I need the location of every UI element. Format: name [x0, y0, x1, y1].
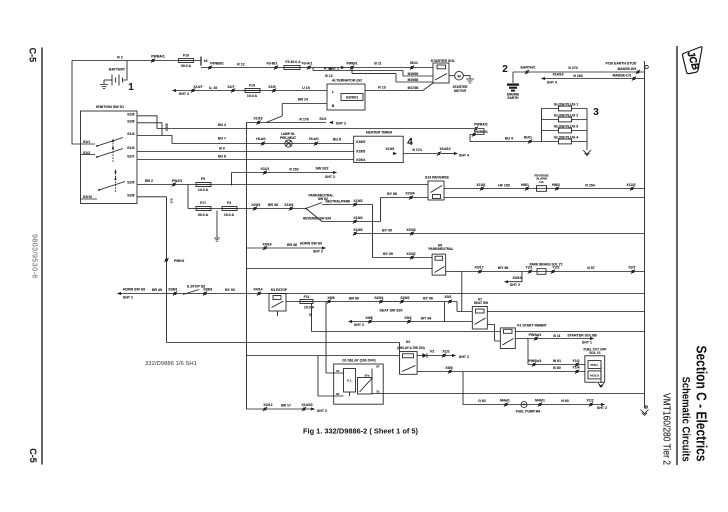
- svg-text:X20/3: X20/3: [406, 228, 415, 232]
- connector Y2/1: [528, 269, 532, 273]
- svg-text:F3 40.0 A: F3 40.0 A: [285, 60, 301, 64]
- switch seat S20 dashed: [383, 301, 399, 303]
- svg-text:BU/1: BU/1: [524, 136, 532, 140]
- svg-text:N 163: N 163: [573, 74, 582, 78]
- svg-text:GLOW PLUG 2: GLOW PLUG 2: [554, 113, 579, 117]
- svg-text:X1/2: X1/2: [586, 398, 593, 402]
- svg-text:EARTH/1: EARTH/1: [521, 66, 536, 70]
- wire S13 output N 154 row: [444, 188, 645, 190]
- svg-text:S1/4: S1/4: [127, 132, 134, 136]
- connector HLa/1: [261, 141, 265, 145]
- wire S13 coil return row: [444, 197, 645, 199]
- svg-text:PWSa/1: PWSa/1: [529, 333, 542, 337]
- wire BY 39 K5 coil row: [373, 257, 433, 259]
- svg-text:X12/2: X12/2: [626, 183, 635, 187]
- wire K2 coil row from bus: [246, 355, 400, 357]
- svg-text:9803/9530-6: 9803/9530-6: [30, 234, 37, 278]
- wire X19/3 BY 45 row: [355, 233, 645, 235]
- wire K5 contact feed row: [246, 268, 432, 270]
- svg-text:X5/5: X5/5: [445, 366, 452, 370]
- svg-text:X2/7: X2/7: [227, 85, 234, 89]
- svg-text:U, 16: U, 16: [209, 86, 217, 90]
- svg-text:M19/30: M19/30: [408, 78, 419, 82]
- wire fuel pump row: [463, 404, 601, 406]
- connector BU/1: [528, 139, 532, 143]
- svg-text:X19/9: X19/9: [356, 140, 365, 144]
- svg-text:S2/7: S2/7: [127, 154, 134, 158]
- ground starter motor: [463, 76, 474, 83]
- svg-text:Section C - Electrics: Section C - Electrics: [692, 346, 709, 462]
- wire N 174 heater output: [403, 153, 437, 155]
- svg-text:C-5: C-5: [28, 48, 38, 63]
- svg-text:PULL: PULL: [590, 363, 598, 367]
- ground fuel sol: [598, 365, 604, 388]
- svg-text:S2/6: S2/6: [127, 193, 134, 197]
- glow plug R1: [542, 108, 588, 110]
- svg-text:BR 17: BR 17: [281, 404, 291, 408]
- connector X19/1 park sw: [289, 206, 293, 210]
- svg-text:X19/1: X19/1: [284, 203, 293, 207]
- svg-text:SHT 2: SHT 2: [123, 295, 133, 299]
- svg-text:HORN SW S9: HORN SW S9: [123, 288, 145, 292]
- svg-text:R 12: R 12: [237, 63, 244, 67]
- svg-text:10.0 A: 10.0 A: [304, 305, 315, 309]
- svg-text:S20/1: S20/1: [374, 296, 383, 300]
- wire drop to fuel pump row: [462, 372, 464, 405]
- svg-text:D1 DELAY (10S OFF): D1 DELAY (10S OFF): [342, 359, 375, 363]
- D1 inner timer block: [344, 369, 356, 393]
- svg-text:E.STOP S3: E.STOP S3: [187, 285, 205, 289]
- svg-text:BU 8: BU 8: [333, 137, 341, 141]
- connector X1/9: [272, 88, 276, 92]
- svg-text:BATTERY: BATTERY: [109, 68, 126, 72]
- svg-text:SHT 1: SHT 1: [329, 67, 339, 71]
- fuel cut off solenoid Y1: [585, 356, 605, 382]
- svg-text:X4/14: X4/14: [253, 288, 262, 292]
- pcb earth stud circle: [645, 65, 648, 68]
- starter motor M1: [449, 75, 455, 77]
- ground stub below fuse row: [214, 211, 220, 242]
- wire K1 coil row: [312, 331, 501, 333]
- svg-text:M17/30: M17/30: [408, 86, 419, 90]
- connector X14/10 heater: [437, 151, 441, 155]
- svg-text:X11/1: X11/1: [261, 167, 270, 171]
- svg-text:X4/16: X4/16: [262, 242, 271, 246]
- wire B 12 branch to M19/30: [352, 68, 433, 83]
- svg-text:GLOW PLUG 1: GLOW PLUG 1: [554, 102, 579, 106]
- svg-text:SHT 2: SHT 2: [336, 122, 346, 126]
- svg-text:BU 4: BU 4: [505, 137, 513, 141]
- svg-text:R 152: R 152: [289, 168, 298, 172]
- svg-text:X19/4: X19/4: [356, 158, 365, 162]
- connector S20/1: [379, 299, 383, 303]
- svg-text:S2/10: S2/10: [83, 195, 92, 199]
- svg-text:BR 14: BR 14: [298, 98, 308, 102]
- svg-text:SEAT SW: SEAT SW: [474, 301, 488, 305]
- svg-text:X2/7: X2/7: [628, 266, 635, 270]
- svg-text:M15/30: M15/30: [408, 72, 419, 76]
- svg-text:M4b/1: M4b/1: [535, 398, 545, 402]
- ground right bus bottom: [645, 406, 647, 408]
- svg-text:HF 153: HF 153: [498, 183, 510, 187]
- connector S36/1 left: [173, 291, 177, 295]
- svg-text:15: 15: [336, 369, 340, 373]
- svg-text:3: 3: [593, 107, 599, 118]
- svg-text:S26/2: S26/2: [400, 296, 409, 300]
- relay K5 park/neutral: [432, 254, 446, 275]
- connector X20/1: [253, 206, 257, 210]
- svg-text:PWB/1: PWB/1: [346, 62, 357, 66]
- svg-text:X20/4: X20/4: [405, 192, 414, 196]
- svg-text:10.0 A: 10.0 A: [198, 188, 209, 192]
- svg-text:VMT160/280 Tier 2: VMT160/280 Tier 2: [661, 393, 672, 465]
- wire K2 coil drop to D1 pin30: [318, 356, 334, 397]
- wire battery to feed: [123, 61, 128, 81]
- glow plug R4: [542, 141, 588, 143]
- wire NEUTRAL/PARK X19/2 row: [322, 204, 373, 206]
- wire BU 3 jumper S2/8 to S1/4: [137, 123, 162, 136]
- svg-text:NEUTRAL/PARK: NEUTRAL/PARK: [326, 200, 352, 204]
- wire BU 7 row: [137, 136, 354, 144]
- svg-text:SHT 1: SHT 1: [582, 340, 592, 344]
- wire K1 out starter sol row: [515, 338, 590, 340]
- svg-text:16: 16: [204, 59, 208, 63]
- svg-text:GLOW PLUG 3: GLOW PLUG 3: [554, 124, 579, 128]
- svg-text:X5/2: X5/2: [404, 316, 411, 320]
- connector Y2/2: [551, 269, 555, 273]
- svg-text:F10: F10: [183, 54, 189, 58]
- battery B1: [112, 75, 123, 86]
- svg-text:R 176: R 176: [299, 117, 308, 121]
- wire BU 4 row: [137, 116, 474, 129]
- svg-text:PWRB/1: PWRB/1: [474, 130, 488, 134]
- svg-text:X2/12: X2/12: [263, 403, 272, 407]
- svg-text:S36/1: S36/1: [203, 288, 212, 292]
- svg-text:U 15: U 15: [302, 86, 309, 90]
- wire F11 drop to K1 coil row: [311, 304, 313, 332]
- svg-text:SOL Y1: SOL Y1: [589, 351, 600, 355]
- svg-text:HORN SW S9: HORN SW S9: [300, 241, 322, 245]
- ground battery earth: [100, 80, 108, 89]
- svg-text:BU 4: BU 4: [218, 123, 226, 127]
- svg-text:X19/1: X19/1: [385, 147, 394, 151]
- connector X2/7: [231, 88, 235, 92]
- svg-text:HLa/1: HLa/1: [256, 137, 266, 141]
- svg-text:N 63: N 63: [561, 399, 568, 403]
- connector X11/1: [263, 170, 267, 174]
- wire BU 6 row: [137, 159, 354, 161]
- svg-text:N 170: N 170: [568, 66, 577, 70]
- wire WY 34 row: [352, 321, 472, 323]
- connector HLb/1: [314, 141, 318, 145]
- fuse F19 10.0 A: [245, 89, 260, 93]
- wire main feed row to starter sol: [201, 67, 433, 69]
- svg-text:BY 96: BY 96: [423, 297, 433, 301]
- svg-text:ALTERNATOR (G2: ALTERNATOR (G2: [332, 79, 362, 83]
- wire S2/6 drop PWH: [137, 197, 167, 343]
- svg-text:31: 31: [376, 389, 380, 393]
- svg-text:V2: V2: [430, 349, 434, 353]
- wire engine earth row N 170: [513, 71, 645, 73]
- main vertical bus: [246, 123, 248, 410]
- svg-text:BU 7: BU 7: [218, 137, 226, 141]
- fuse F10 30.0 A: [179, 59, 194, 63]
- wire K2 feed from PWH: [167, 343, 400, 352]
- svg-text:25: 25: [309, 313, 313, 317]
- svg-text:X14/10: X14/10: [439, 147, 450, 151]
- svg-text:R 13: R 13: [378, 86, 385, 90]
- switch estop S3: [183, 290, 199, 295]
- engine earth symbol: [512, 72, 514, 83]
- wire K1 coil return to bus: [515, 331, 644, 333]
- svg-text:X19/3: X19/3: [353, 228, 362, 232]
- svg-text:MASSE-B/1: MASSE-B/1: [617, 67, 636, 71]
- diode V2: [417, 353, 434, 357]
- svg-text:PWSb/1: PWSb/1: [528, 359, 541, 363]
- wire B 9 row: [137, 151, 354, 153]
- svg-text:SHT 2: SHT 2: [597, 406, 607, 410]
- ground glow plugs: [583, 150, 591, 156]
- svg-text:FUEL PUMP M4: FUEL PUMP M4: [516, 409, 541, 413]
- svg-text:S L: S L: [347, 379, 352, 383]
- wire X2/12 bottom row: [246, 408, 311, 410]
- svg-text:F5: F5: [201, 177, 205, 181]
- svg-text:S2/9: S2/9: [127, 112, 134, 116]
- sheet ref X3/10 SHT 2: [508, 272, 522, 282]
- svg-text:F4: F4: [227, 201, 231, 205]
- svg-text:STARTER SOL/86: STARTER SOL/86: [567, 333, 596, 337]
- svg-text:HOLD: HOLD: [590, 373, 600, 377]
- svg-text:G 62: G 62: [478, 399, 486, 403]
- svg-text:S1/1: S1/1: [83, 140, 90, 144]
- svg-text:PWBB/1: PWBB/1: [210, 62, 224, 66]
- svg-text:PWBA/1: PWBA/1: [151, 55, 165, 59]
- svg-text:S2/8: S2/8: [127, 119, 134, 123]
- svg-text:B 11: B 11: [374, 62, 381, 66]
- svg-text:PWH/1: PWH/1: [174, 259, 185, 263]
- svg-text:HB/2: HB/2: [552, 183, 560, 187]
- svg-text:SEAT SW S20: SEAT SW S20: [380, 309, 403, 313]
- svg-text:BR 60: BR 60: [349, 297, 359, 301]
- ignition switch S1 box: [81, 111, 138, 204]
- left page border line: [41, 48, 43, 465]
- wire K7 coil return to bus: [487, 311, 644, 313]
- svg-text:X5/6: X5/6: [327, 296, 334, 300]
- wire X5/1 drop to K7 coil: [457, 302, 472, 312]
- svg-text:X14/10: X14/10: [552, 73, 563, 77]
- svg-text:2: 2: [502, 64, 508, 75]
- fuse F17 30.0 A: [196, 207, 211, 211]
- switch park/neutral S2: [293, 203, 322, 209]
- glow plug left rail: [541, 109, 543, 142]
- svg-text:F17: F17: [200, 201, 206, 205]
- svg-text:G2/30/1: G2/30/1: [346, 96, 359, 100]
- wire X11/1 row: [232, 173, 334, 186]
- connector MASSE-B/1: [636, 70, 640, 74]
- fuel pump M4: [521, 402, 527, 408]
- switch linkage arrows: [112, 140, 114, 162]
- svg-text:STARTER SOL: STARTER SOL: [431, 59, 456, 63]
- reverse alarm HA: [537, 186, 547, 192]
- svg-text:87a: 87a: [365, 374, 370, 378]
- svg-text:X13/1: X13/1: [476, 183, 485, 187]
- svg-text:BR 49: BR 49: [152, 288, 162, 292]
- wire K7 contact out to K1: [487, 325, 500, 342]
- glow plug right rail: [586, 109, 588, 151]
- svg-text:W 61: W 61: [553, 359, 561, 363]
- svg-text:HB/1: HB/1: [521, 183, 529, 187]
- wire left drop to ignition S1/1: [72, 61, 81, 145]
- connector X1/16: [256, 120, 260, 124]
- svg-text:S36/1: S36/1: [168, 288, 177, 292]
- svg-text:X19/4: X19/4: [353, 216, 362, 220]
- connector X3/17: [478, 269, 482, 273]
- connector M1/1: [410, 65, 414, 69]
- svg-text:WY 56: WY 56: [498, 266, 508, 270]
- fuse F4 15.0 A: [222, 207, 237, 211]
- svg-text:PWRA/1: PWRA/1: [474, 123, 488, 127]
- svg-text:REVERSE SW S24: REVERSE SW S24: [303, 216, 331, 220]
- fuse F5 10.0 A: [196, 183, 211, 187]
- wire X19/4 row: [322, 221, 381, 223]
- fuse F3 40.0 A: [284, 66, 300, 70]
- svg-text:SHT 2: SHT 2: [179, 92, 189, 96]
- svg-text:HLb/1: HLb/1: [309, 137, 319, 141]
- connector PWH/1: [164, 258, 168, 262]
- wire PWSb branch to fuel sol pull: [528, 339, 585, 365]
- svg-text:Fig 1. 332/D9886-2 ( Sheet 1 o: Fig 1. 332/D9886-2 ( Sheet 1 of 5): [303, 427, 418, 436]
- svg-text:Y2/2: Y2/2: [552, 266, 559, 270]
- svg-text:X3/17: X3/17: [474, 266, 483, 270]
- svg-text:HEATER TIMER: HEATER TIMER: [366, 131, 392, 135]
- svg-text:Schematic Circuits: Schematic Circuits: [679, 377, 691, 462]
- connector F3-B/1: [274, 65, 278, 69]
- svg-text:X20/1: X20/1: [251, 203, 260, 207]
- connector PWBB/1: [208, 65, 212, 69]
- svg-text:BY 50: BY 50: [225, 288, 235, 292]
- svg-text:X3/8: X3/8: [365, 316, 372, 320]
- connector HB/2: [555, 186, 559, 190]
- wire F11 seat row: [286, 301, 457, 303]
- D1 inner relay contact: [358, 378, 373, 395]
- connector EARTH/1: [525, 70, 529, 74]
- svg-text:X1/16: X1/16: [253, 116, 262, 120]
- svg-text:BR 2: BR 2: [145, 179, 153, 183]
- connector X5/1: [448, 299, 452, 303]
- svg-text:1: 1: [128, 82, 134, 93]
- svg-text:PCB EARTH STUD: PCB EARTH STUD: [606, 62, 637, 66]
- svg-text:C-5: C-5: [28, 448, 38, 463]
- svg-text:F11: F11: [304, 295, 310, 299]
- connector X2/7 park brake: [631, 269, 635, 273]
- switch blade 1: [81, 138, 124, 147]
- connector PWBA/1: [151, 58, 155, 62]
- svg-text:X19/2: X19/2: [353, 199, 362, 203]
- svg-text:332/D9886 1/6 SH1: 332/D9886 1/6 SH1: [145, 361, 197, 367]
- svg-text:K3 ESTOP: K3 ESTOP: [271, 288, 288, 292]
- svg-text:30.0 A: 30.0 A: [198, 213, 209, 217]
- glow plug R3: [542, 130, 588, 132]
- svg-text:B 9: B 9: [219, 147, 225, 151]
- svg-text:K1 START INHIBIT: K1 START INHIBIT: [517, 323, 547, 327]
- wire D1 pin31 row: [383, 393, 644, 395]
- svg-text:SW S22: SW S22: [316, 166, 329, 170]
- wire ground to battery: [104, 79, 112, 81]
- svg-text:87: 87: [376, 365, 380, 369]
- svg-text:PWJ/1: PWJ/1: [172, 179, 183, 183]
- relay K1 start inhibit: [500, 328, 515, 349]
- svg-text:PRE-HEAT: PRE-HEAT: [280, 136, 296, 140]
- sheet ref SHT 4 heater: [441, 153, 454, 155]
- svg-text:F19: F19: [249, 84, 255, 88]
- svg-text:K2: K2: [406, 340, 410, 344]
- svg-text:(DELAY 0.75S ON): (DELAY 0.75S ON): [397, 346, 424, 350]
- svg-text:4: 4: [407, 137, 413, 148]
- svg-text:Y1/4: Y1/4: [572, 365, 579, 369]
- svg-text:F3-B/1: F3-B/1: [267, 62, 278, 66]
- svg-text:BY 45: BY 45: [382, 228, 392, 232]
- svg-text:X20/2: X20/2: [406, 252, 415, 256]
- svg-text:WY 34: WY 34: [421, 317, 431, 321]
- svg-text:BU 3: BU 3: [165, 124, 169, 131]
- right divider line: [676, 46, 678, 465]
- relay S13 reverse: [428, 181, 444, 200]
- alternator G2 box: [327, 84, 365, 110]
- connector F3-A/1: [307, 65, 311, 69]
- connector X12/2: [630, 186, 634, 190]
- wire alternator output R 13: [365, 83, 433, 91]
- wire X5/6 drop to D1 pin15: [326, 302, 334, 374]
- svg-text:N 174: N 174: [412, 148, 421, 152]
- relay K2 delay: [400, 352, 418, 375]
- svg-text:X14/20: X14/20: [301, 403, 312, 407]
- relay K7 seat sw: [472, 307, 487, 330]
- connector S26/2: [400, 299, 404, 303]
- JCB logo: [683, 47, 703, 74]
- svg-text:MOTOR: MOTOR: [454, 89, 467, 93]
- svg-text:15.0 A: 15.0 A: [224, 213, 235, 217]
- wire K5 drop to horn bus row: [461, 272, 463, 312]
- svg-text:MASSE-C/1: MASSE-C/1: [612, 74, 631, 78]
- wire BR 2 ignition feed row: [137, 184, 428, 186]
- starter solenoid box: [433, 63, 449, 83]
- right earth bus: [644, 61, 646, 409]
- switch blade 2: [81, 149, 124, 158]
- sheet ref SHT 2 alternator row: [172, 89, 176, 92]
- svg-text:B 5: B 5: [170, 199, 174, 204]
- connector X5/6: [327, 299, 331, 303]
- sheet ref SHT 4 X14/10 N 163 row: [541, 77, 545, 80]
- wire battery feed R 2: [72, 60, 201, 62]
- wire K2 out X5/5 B 80 row: [417, 371, 585, 373]
- svg-text:X1/2: X1/2: [442, 350, 449, 354]
- svg-text:SHT 4: SHT 4: [547, 81, 557, 85]
- wire R 2A branch to M15/30: [313, 68, 433, 77]
- wire F17 F4 fuse row: [188, 185, 293, 209]
- svg-text:SHT 2: SHT 2: [459, 355, 469, 359]
- wire seat return tap: [444, 302, 446, 322]
- svg-text:F3-A/1: F3-A/1: [302, 62, 313, 66]
- svg-text:BR 46: BR 46: [287, 243, 297, 247]
- switch blade 3: [81, 182, 126, 200]
- connector X13/1: [480, 186, 484, 190]
- svg-text:X5/1: X5/1: [444, 295, 451, 299]
- svg-text:SHT 2: SHT 2: [325, 175, 335, 179]
- svg-text:BY 58: BY 58: [387, 192, 397, 196]
- wire horn estop long row: [121, 293, 645, 295]
- svg-text:SHT 2: SHT 2: [354, 323, 364, 327]
- svg-text:B 11: B 11: [553, 334, 560, 338]
